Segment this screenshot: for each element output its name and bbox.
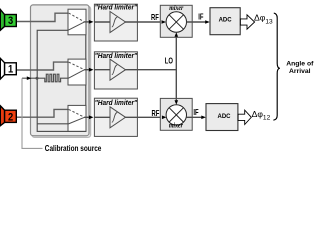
svg-text:Δφ12: Δφ12 (252, 109, 271, 122)
svg-text:mixer: mixer (169, 4, 183, 12)
svg-text:IF: IF (193, 107, 199, 117)
svg-text:2: 2 (8, 112, 13, 124)
svg-text:"Hard limiter": "Hard limiter" (95, 53, 138, 60)
svg-text:mixer: mixer (169, 122, 183, 130)
svg-text:1: 1 (8, 64, 13, 76)
svg-text:LO: LO (165, 56, 173, 66)
svg-text:ADC: ADC (219, 18, 233, 24)
svg-text:RF: RF (151, 12, 159, 22)
svg-text:"Hard limiter": "Hard limiter" (95, 4, 138, 11)
svg-text:Calibration source: Calibration source (45, 143, 102, 153)
svg-text:3: 3 (8, 16, 13, 28)
svg-text:Arrival: Arrival (289, 68, 311, 75)
svg-text:"Hard limiter": "Hard limiter" (95, 100, 138, 107)
svg-text:RF: RF (152, 108, 160, 118)
svg-text:Angle of: Angle of (286, 61, 314, 68)
svg-text:ADC: ADC (218, 114, 232, 120)
svg-text:Δφ13: Δφ13 (254, 13, 273, 26)
svg-text:IF: IF (198, 11, 204, 21)
